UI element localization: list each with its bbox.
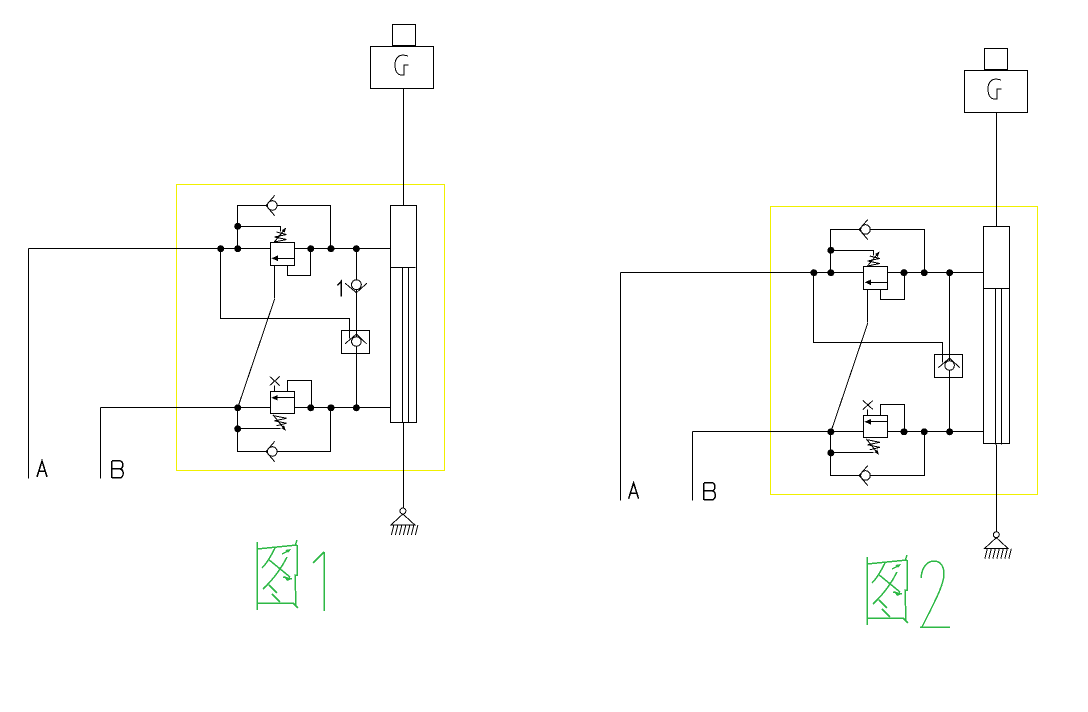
wire: port A horizontal rail (fig2) bbox=[621, 272, 984, 274]
wire: CB1 pilot diagonal down to B rail (fig1) bbox=[238, 299, 275, 408]
wire: CB2 pilot loop to B rail (fig1) bbox=[288, 381, 312, 408]
node: bottom loop / CB2 spring branch (fig2) bbox=[827, 449, 834, 456]
wire: top check-valve bypass loop (fig1) bbox=[238, 206, 331, 249]
counterbalance valve CB2 body (fig1) bbox=[271, 392, 295, 414]
node: B rail / CB2 pilot loop (fig2) bbox=[901, 428, 908, 435]
hydraulic cylinder (fig2) bbox=[984, 227, 1010, 445]
counterbalance valve CB1 body (fig1) bbox=[271, 243, 295, 266]
wire: port B vertical drop (fig2) bbox=[692, 432, 694, 501]
node: A rail / CB1 drain (fig2) bbox=[901, 269, 908, 276]
wire: CB1 pilot diagonal down to B rail (fig2) bbox=[831, 323, 868, 432]
node: A rail / pilot takeoff (fig2) bbox=[810, 269, 817, 276]
closed pilot port X of counterbalance valve CB2 (fig2) bbox=[863, 401, 873, 416]
node: B rail / bottom loop right (fig2) bbox=[921, 428, 928, 435]
weight G load block (fig2) bbox=[965, 49, 1028, 113]
check valve CV-top (fig1) bbox=[266, 195, 277, 215]
node: A rail / centre line (fig2) bbox=[946, 269, 953, 276]
node: B rail / bottom loop (fig2) bbox=[827, 428, 834, 435]
adjustable spring of counterbalance valve CB1 (fig1) bbox=[273, 228, 287, 244]
check valve CV-bottom (fig2) bbox=[859, 465, 870, 485]
wire: port A vertical drop (fig2) bbox=[620, 273, 622, 501]
node: B rail / centre line (fig2) bbox=[946, 428, 953, 435]
frame: yellow boundary rectangle (fig1) bbox=[177, 185, 445, 471]
node: B rail / bottom loop right (fig1) bbox=[328, 404, 335, 411]
wire: piston rod extension to ground anchor (fig2) bbox=[996, 445, 998, 532]
node: A rail / top loop (fig1) bbox=[234, 245, 241, 252]
wire: pilot line from A rail to pilot-operated check valve (fig1) bbox=[221, 249, 350, 339]
node: A rail / top loop right (fig2) bbox=[921, 269, 928, 276]
wire: piston rod extension to ground anchor (fig1) bbox=[403, 423, 405, 509]
wire: port B horizontal rail (fig2) bbox=[693, 431, 984, 433]
wire: CB1 pilot vertical (fig2) bbox=[867, 290, 869, 323]
counterbalance valve CB1 body (fig2) bbox=[864, 267, 888, 290]
node: A rail / centre line (fig1) bbox=[353, 245, 360, 252]
pilot-operated check valve (fig1) bbox=[342, 331, 370, 354]
label A (fig1) bbox=[37, 461, 47, 477]
node: A rail / top loop right (fig1) bbox=[328, 245, 335, 252]
wire: top check-valve bypass loop (fig2) bbox=[831, 230, 925, 273]
node: A rail / pilot takeoff (fig1) bbox=[217, 245, 224, 252]
text label "图2" caption (fig2) bbox=[867, 555, 950, 627]
node: top loop / CB1 spring branch (fig2) bbox=[827, 247, 834, 254]
wire: load stem from weight G down to cylinder top (fig2) bbox=[996, 113, 998, 227]
label B (fig2) bbox=[704, 483, 715, 500]
wire: load stem from weight G down to cylinder top (fig1) bbox=[403, 89, 405, 206]
check valve 1 on centre line (fig1) bbox=[345, 280, 367, 293]
wire: centre vertical line between A and B rails (fig1) bbox=[356, 249, 358, 408]
check valve CV-top (fig2) bbox=[859, 219, 870, 239]
node: A rail / top loop (fig2) bbox=[827, 269, 834, 276]
wire: port A vertical drop (fig1) bbox=[28, 249, 30, 479]
wire: centre vertical line between A and B rails (fig2) bbox=[949, 273, 951, 432]
adjustable spring of counterbalance valve CB2 (fig1) bbox=[273, 415, 287, 431]
pilot-operated check valve (fig2) bbox=[935, 355, 963, 378]
node: bottom loop / CB2 spring branch (fig1) bbox=[234, 425, 241, 432]
wire: bottom check-valve bypass loop (fig1) bbox=[238, 408, 331, 452]
node: top loop / CB1 spring branch (fig1) bbox=[234, 223, 241, 230]
node: A rail / CB1 drain (fig1) bbox=[307, 245, 314, 252]
closed pilot port X of counterbalance valve CB2 (fig1) bbox=[270, 377, 280, 392]
check valve CV-bottom (fig1) bbox=[266, 441, 277, 461]
counterbalance valve CB2 body (fig2) bbox=[864, 416, 888, 438]
wire: port B horizontal rail (fig1) bbox=[101, 407, 391, 409]
wire: pilot branch to CB1 spring (fig1) bbox=[238, 227, 281, 232]
node: B rail / CB2 pilot loop (fig1) bbox=[307, 404, 314, 411]
wire: port A horizontal rail (fig1) bbox=[29, 248, 391, 250]
label 1 for check valve (fig1) bbox=[338, 281, 342, 296]
wire: CB1 pilot vertical (fig1) bbox=[274, 266, 276, 299]
wire: pilot branch to CB1 spring (fig2) bbox=[831, 251, 874, 256]
wire: bottom check-valve bypass loop (fig2) bbox=[831, 432, 925, 476]
wire: pilot line from A rail to pilot-operated check valve (fig2) bbox=[814, 273, 943, 363]
adjustable spring of counterbalance valve CB1 (fig2) bbox=[866, 252, 880, 268]
node: B rail / centre line (fig1) bbox=[353, 404, 360, 411]
adjustable spring of counterbalance valve CB2 (fig2) bbox=[866, 439, 880, 455]
wire: CB1 drain loop to A rail (fig1) bbox=[288, 249, 311, 276]
label A (fig2) bbox=[629, 483, 639, 499]
wire: pilot branch to CB2 spring (fig2) bbox=[831, 452, 874, 454]
text label "图1" caption (fig1) bbox=[257, 540, 324, 611]
wire: port B vertical drop (fig1) bbox=[100, 408, 102, 479]
ground anchor fixed support (fig1) bbox=[391, 508, 418, 535]
frame: yellow boundary rectangle (fig2) bbox=[771, 207, 1038, 495]
node: B rail / bottom loop (fig1) bbox=[234, 404, 241, 411]
ground anchor fixed support (fig2) bbox=[984, 532, 1011, 559]
weight G load block (fig1) bbox=[371, 25, 434, 89]
wire: CB1 drain loop to A rail (fig2) bbox=[881, 273, 905, 300]
label B (fig1) bbox=[112, 461, 123, 478]
hydraulic cylinder (fig1) bbox=[391, 206, 417, 423]
wire: pilot branch to CB2 spring (fig1) bbox=[238, 428, 281, 430]
wire: CB2 pilot loop to B rail (fig2) bbox=[881, 405, 905, 432]
